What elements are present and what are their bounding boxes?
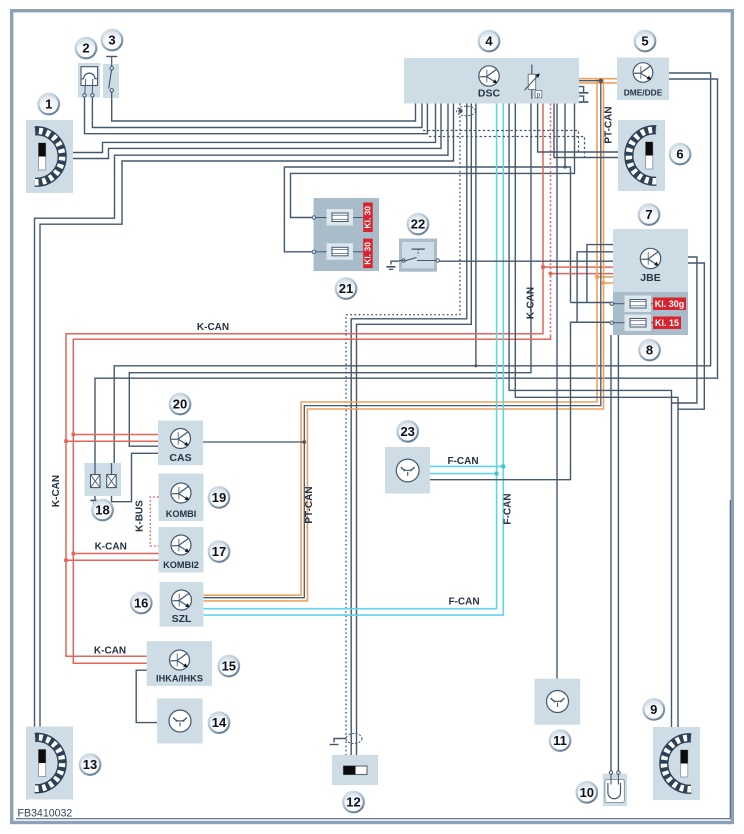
wire F-CAN trunk (inner): [203, 104, 496, 609]
label K-CAN at KOMBI2: [95, 542, 127, 553]
wire DSC to box11: [556, 104, 558, 679]
wire comp2 left terminal to DSC pin3: [85, 97, 428, 134]
wire dashed option upper to sensor 6: [423, 131, 579, 153]
wire F-CAN branch to box23 upper: [430, 465, 505, 469]
numbered callout 5: [634, 30, 657, 53]
svg-text:IHKA/IHKS: IHKA/IHKS: [156, 674, 203, 684]
svg-text:22: 22: [411, 217, 425, 232]
wire K-CAN branch to KOMBI2 upper: [72, 552, 159, 556]
component box 14 (blower): [157, 699, 203, 744]
svg-text:F-CAN: F-CAN: [447, 456, 478, 467]
fuse box 21: [312, 198, 379, 271]
svg-text:Kl. 30: Kl. 30: [363, 242, 373, 265]
wire K-BUS KOMBI to KOMBI2: [150, 497, 158, 546]
label K-CAN vertical left: [51, 475, 62, 507]
wire DSC pin to fuse1 of box21: [291, 104, 575, 218]
wire PT-CAN trunk (inner): [203, 78, 603, 601]
wire box22 to JBE: [440, 260, 614, 262]
svg-text:23: 23: [400, 424, 414, 439]
numbered callout 7: [638, 203, 661, 226]
label F-CAN vertical: [503, 493, 514, 524]
svg-text:10: 10: [580, 785, 594, 800]
wire JBE to box10 terminal 2: [617, 335, 619, 771]
numbered callout 9: [642, 698, 665, 721]
wire PT-CAN trunk (outer): [203, 79, 597, 596]
svg-text:1: 1: [45, 97, 52, 112]
numbered callout 13: [79, 753, 102, 776]
fuse section 8 of JBE: [610, 292, 688, 335]
wire dashed option lower to sensor 6: [429, 137, 585, 158]
svg-text:Kl. 30: Kl. 30: [363, 206, 373, 229]
wire PT-CAN branch to JBE upper: [595, 275, 613, 279]
control unit KOMBI (19): [159, 474, 204, 521]
svg-text:13: 13: [83, 757, 97, 772]
label K-BUS vertical: [135, 500, 146, 532]
wire x1 to ground: [94, 488, 96, 500]
wheel speed sensor box 6: [618, 120, 665, 191]
wire H3 DME-net to box18 x1: [95, 79, 718, 475]
wire net KL30 upper: JBE t1 riser to fuse2 of box21: [284, 104, 570, 303]
numbered callout 2: [75, 37, 98, 60]
wheel speed sensor box 9: [653, 727, 700, 800]
numbered callout 4: [478, 30, 501, 53]
svg-text:F-CAN: F-CAN: [448, 597, 479, 608]
svg-text:16: 16: [134, 596, 148, 611]
svg-text:KOMBI2: KOMBI2: [163, 560, 199, 570]
svg-text:CAS: CAS: [169, 452, 191, 464]
wire K-CAN branch to CAS upper: [72, 433, 159, 437]
wire DSC pin to H1 junction: [474, 104, 477, 368]
capacitor symbols at DSC right: [578, 87, 588, 102]
control unit SZL (16): [160, 582, 204, 627]
wire DSC to box12 terminal 1: [351, 104, 467, 756]
fuse label Kl.15: [653, 317, 681, 330]
svg-text:5: 5: [641, 34, 648, 49]
svg-text:14: 14: [212, 715, 227, 730]
svg-text:12: 12: [346, 795, 360, 810]
wire PT-CAN branch to JBE lower: [602, 281, 614, 285]
numbered callout 15: [217, 655, 240, 678]
svg-text:K-BUS: K-BUS: [135, 500, 146, 532]
svg-text:6: 6: [676, 147, 683, 162]
numbered callout 21: [335, 277, 358, 300]
wire IHKA to box14: [136, 670, 157, 722]
label F-CAN bottom: [448, 597, 479, 608]
wire x2 loop to CAS stub B: [112, 453, 159, 501]
component box 18 (fuses): [85, 463, 122, 496]
wire K-CAN DSC drop (inner, dashed segment): [73, 104, 550, 664]
svg-text:11: 11: [553, 733, 567, 748]
svg-text:8: 8: [646, 343, 653, 358]
svg-text:20: 20: [173, 397, 187, 412]
numbered callout 3: [101, 29, 124, 52]
component box 11 (sensor): [535, 679, 581, 725]
switch box 22: [399, 239, 439, 272]
wire K-CAN DSC drop (outer): [66, 104, 543, 657]
svg-text:19: 19: [212, 490, 226, 505]
fuse label Kl.30g: [653, 298, 686, 311]
wire F-CAN trunk (outer): [203, 104, 503, 616]
svg-text:SZL: SZL: [172, 613, 192, 625]
component box 23 (sensor): [385, 447, 430, 494]
wire DSC signal via PT-CAN route to SZL: [203, 79, 602, 598]
svg-text:PT-CAN: PT-CAN: [604, 106, 615, 143]
control unit DME/DDE (5): [617, 58, 669, 101]
wire DSC pin6 to wheel sensor 13 (outer): [35, 104, 449, 739]
component box 10 (bulb socket): [603, 771, 627, 806]
svg-text:3: 3: [108, 33, 115, 48]
wheel speed sensor box 13: [26, 727, 73, 800]
wire JBE right to box9 join (lower): [678, 263, 704, 409]
numbered callout 19: [208, 486, 231, 509]
wire DSC to wheel sensor 6 upper: [538, 104, 623, 153]
svg-text:F-CAN: F-CAN: [503, 493, 514, 524]
numbered callout 6: [669, 143, 692, 166]
component box 2 (pad wear sensor): [78, 63, 100, 98]
svg-text:Kl. 30g: Kl. 30g: [655, 299, 685, 309]
svg-text:JBE: JBE: [640, 272, 660, 284]
wire DSC dotted to box12: [346, 104, 460, 756]
twisted pair marker above box12: [346, 734, 362, 744]
wire DSC to box9 (outer): [509, 104, 671, 737]
wire JBE to box10 terminal 1: [610, 335, 612, 771]
label F-CAN at box23: [447, 456, 478, 467]
wire comp2 right terminal to DSC pin2: [92, 97, 422, 128]
label K-CAN vertical at DSC: [526, 287, 537, 319]
fuse label Kl.30 upper: [363, 203, 373, 233]
component box 12 (sensor strip): [332, 755, 378, 785]
control unit IHKA/IHKS (15): [147, 641, 212, 686]
svg-text:FB3410032: FB3410032: [18, 808, 73, 820]
wire K-CAN branch to CAS lower: [64, 439, 158, 443]
numbered callout 12: [342, 791, 365, 814]
component box 3 (brake fluid switch): [103, 57, 119, 100]
twisted pair marker under DSC: [457, 106, 476, 116]
svg-text:9: 9: [650, 702, 657, 717]
control unit KOMBI2 (17): [159, 527, 204, 572]
svg-text:p: p: [537, 92, 541, 99]
wire JBE internal loop B to t2: [571, 252, 614, 322]
numbered callout 11: [549, 729, 572, 752]
wire JBE internal loop A to t1: [571, 245, 614, 303]
wire DSC pin7 to wheel sensor 13 (inner): [40, 104, 454, 739]
numbered callout 17: [208, 540, 231, 563]
svg-text:2: 2: [82, 41, 89, 56]
svg-text:K-CAN: K-CAN: [94, 645, 126, 656]
svg-text:17: 17: [212, 544, 226, 559]
svg-text:PT-CAN: PT-CAN: [304, 486, 315, 523]
label PT-CAN vertical mid: [304, 486, 315, 523]
svg-text:18: 18: [95, 503, 109, 518]
svg-text:DME/DDE: DME/DDE: [624, 88, 663, 98]
ground at box22: [386, 261, 399, 269]
label K-CAN top: [197, 322, 229, 333]
wire K-CAN branch to KOMBI2 lower: [64, 558, 158, 562]
wire H1 DME-net to box18 x2: [114, 73, 710, 475]
control unit DSC (4): [404, 58, 579, 104]
wire DSC to box9 (inner): [515, 104, 678, 737]
svg-text:Kl. 15: Kl. 15: [655, 318, 679, 328]
label PT-CAN vertical top: [604, 106, 615, 143]
wire DSC to wheel sensor 6 lower: [554, 104, 623, 158]
svg-text:KOMBI: KOMBI: [166, 509, 197, 519]
control unit CAS (20): [158, 421, 203, 466]
svg-text:K-CAN: K-CAN: [51, 475, 62, 507]
junction box electronics JBE (7): [613, 229, 688, 292]
numbered callout 22: [407, 213, 430, 236]
numbered callout 14: [208, 711, 231, 734]
numbered callout 10: [575, 781, 598, 804]
svg-text:K-CAN: K-CAN: [95, 542, 127, 553]
fuse label Kl.30 lower: [363, 239, 373, 269]
wire DSC to box12 terminal 2: [357, 104, 472, 756]
wire box1 lower to DSC pin5: [73, 104, 441, 159]
numbered callout 8: [638, 339, 661, 362]
svg-text:K-CAN: K-CAN: [197, 322, 229, 333]
svg-text:15: 15: [222, 659, 236, 674]
numbered callout 1: [37, 93, 60, 116]
svg-text:DSC: DSC: [478, 88, 501, 100]
numbered callout 20: [169, 393, 192, 416]
ground hook above box12: [330, 739, 347, 745]
numbered callout 16: [130, 592, 153, 615]
wire PT-CAN DSC to DME/DDE: [579, 79, 617, 83]
svg-text:K-CAN: K-CAN: [526, 287, 537, 319]
wire K-CAN branch to JBE lower: [549, 272, 613, 276]
svg-text:4: 4: [485, 34, 493, 49]
wire box1 upper to DSC pin4: [73, 104, 436, 153]
wire F-CAN branch to box23 lower: [430, 472, 499, 476]
numbered callout 23: [396, 420, 419, 443]
wire JBE right to box9 join (upper): [672, 257, 697, 403]
svg-text:21: 21: [339, 281, 353, 296]
inner frame bottom line: [16, 500, 730, 819]
wheel speed sensor box 1: [26, 120, 73, 193]
label K-CAN at IHKA: [94, 645, 126, 656]
wire JBE t2 to box23: [430, 322, 612, 479]
wire K-CAN branch to JBE upper: [541, 265, 613, 269]
numbered callout 18: [91, 499, 114, 522]
wire comp3 to DSC pin1: [112, 99, 416, 121]
label FB3410032: [18, 808, 73, 820]
ground under box18: [90, 501, 99, 504]
wire H2 DSC to CAS upper stub: [129, 104, 531, 447]
svg-text:7: 7: [645, 207, 652, 222]
wire CAS to PT-CAN signal junction: [203, 440, 306, 444]
